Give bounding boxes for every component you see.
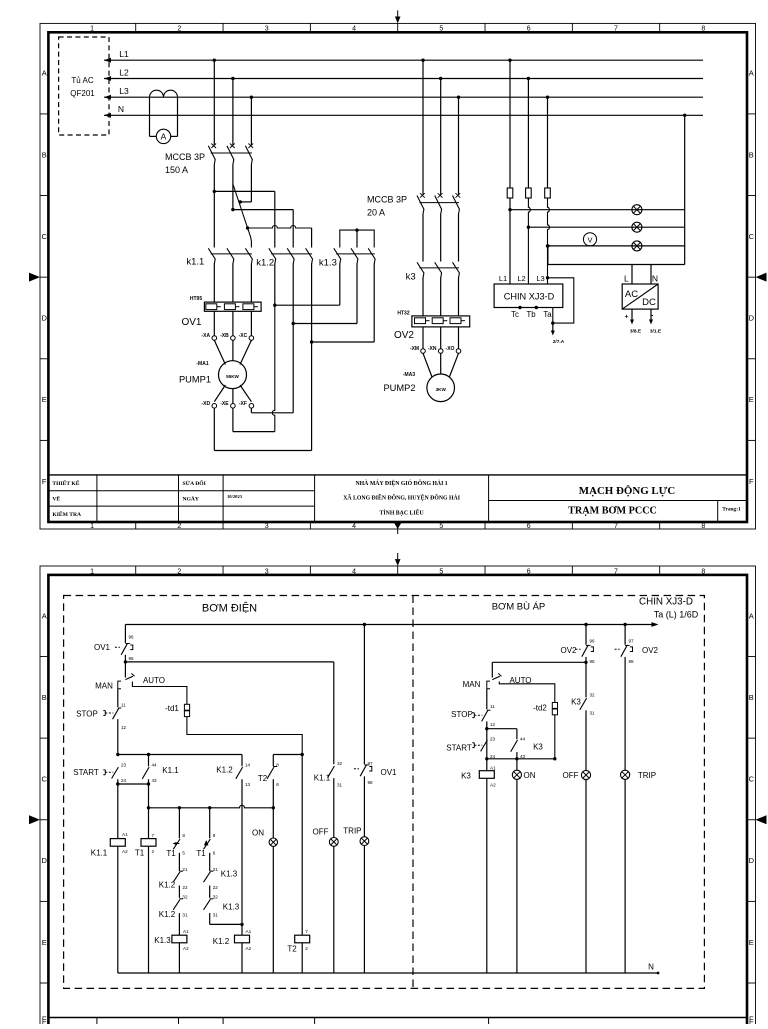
svg-text:k1.2: k1.2	[256, 258, 274, 269]
svg-text:-MA3: -MA3	[403, 372, 415, 378]
svg-text:CHIN XJ3-D: CHIN XJ3-D	[504, 292, 555, 302]
svg-text:F: F	[749, 477, 754, 486]
svg-text:VẼ: VẼ	[52, 495, 60, 503]
svg-text:L3: L3	[119, 86, 129, 96]
svg-text:8: 8	[701, 568, 705, 575]
svg-text:95: 95	[590, 659, 596, 664]
svg-text:43: 43	[152, 778, 158, 783]
svg-text:7: 7	[614, 568, 618, 575]
svg-text:OFF: OFF	[563, 771, 579, 780]
svg-text:OV2: OV2	[394, 330, 414, 341]
svg-text:START: START	[446, 744, 472, 753]
svg-text:-XF: -XF	[239, 401, 247, 407]
svg-text:QF201: QF201	[70, 89, 95, 98]
svg-text:K1.2: K1.2	[213, 937, 230, 946]
svg-text:HT95: HT95	[190, 296, 202, 302]
svg-text:A: A	[42, 611, 47, 620]
svg-text:95: 95	[129, 656, 135, 661]
svg-text:ON: ON	[524, 771, 536, 780]
svg-text:THIẾT KẾ: THIẾT KẾ	[52, 479, 79, 487]
svg-text:150 A: 150 A	[165, 165, 188, 175]
svg-text:31: 31	[337, 783, 343, 788]
svg-text:20 A: 20 A	[367, 208, 385, 218]
svg-text:F: F	[749, 1015, 754, 1024]
svg-text:OFF: OFF	[313, 828, 329, 837]
svg-text:AUTO: AUTO	[143, 676, 165, 685]
svg-text:TRẠM BƠM PCCC: TRẠM BƠM PCCC	[568, 505, 657, 516]
svg-text:32: 32	[590, 693, 596, 698]
svg-text:8: 8	[701, 26, 705, 33]
svg-text:Ta: Ta	[543, 310, 552, 319]
svg-text:96: 96	[129, 635, 135, 640]
svg-text:21: 21	[182, 867, 188, 872]
svg-text:START: START	[73, 768, 99, 777]
svg-text:E: E	[42, 938, 47, 947]
svg-text:A2: A2	[490, 782, 496, 787]
svg-text:L2: L2	[119, 67, 129, 77]
svg-text:k1.1: k1.1	[186, 257, 204, 268]
svg-text:TRIP: TRIP	[343, 827, 361, 836]
svg-text:A: A	[42, 69, 47, 78]
svg-text:6: 6	[527, 523, 531, 530]
svg-text:-XM: -XM	[410, 346, 419, 352]
svg-text:BƠM ĐIỆN: BƠM ĐIỆN	[202, 602, 257, 615]
svg-text:8: 8	[182, 833, 185, 838]
svg-text:A2: A2	[183, 946, 189, 951]
svg-text:7: 7	[152, 833, 155, 838]
svg-text:Tủ AC: Tủ AC	[71, 76, 93, 85]
svg-text:-XC: -XC	[239, 333, 248, 339]
svg-text:K1.3: K1.3	[223, 903, 240, 912]
svg-text:2: 2	[152, 849, 155, 854]
svg-text:A1: A1	[183, 929, 189, 934]
svg-text:K1.1: K1.1	[162, 766, 179, 775]
svg-text:-XN: -XN	[428, 346, 437, 352]
svg-text:E: E	[42, 395, 47, 404]
svg-text:STOP: STOP	[451, 710, 473, 719]
svg-text:B: B	[42, 693, 47, 702]
svg-text:5: 5	[439, 568, 443, 575]
svg-text:T1: T1	[135, 849, 145, 858]
svg-text:Tb: Tb	[526, 310, 536, 319]
svg-text:k1.3: k1.3	[319, 258, 337, 269]
svg-text:44: 44	[152, 762, 158, 767]
svg-text:7: 7	[305, 929, 308, 934]
svg-text:MAN: MAN	[463, 680, 481, 689]
svg-text:1: 1	[90, 26, 94, 33]
svg-text:XÃ LONG ĐIỀN ĐÔNG, HUYỆN ĐÔNG: XÃ LONG ĐIỀN ĐÔNG, HUYỆN ĐÔNG HẢI	[343, 494, 460, 502]
svg-text:32: 32	[213, 895, 219, 900]
svg-text:HT32: HT32	[397, 310, 409, 316]
svg-text:MCCB 3P: MCCB 3P	[367, 195, 407, 205]
svg-text:N: N	[648, 963, 654, 972]
svg-text:4: 4	[352, 568, 356, 575]
svg-text:1: 1	[90, 523, 94, 530]
svg-text:12: 12	[121, 725, 127, 730]
svg-text:+: +	[625, 314, 629, 321]
svg-text:Tc: Tc	[511, 310, 519, 319]
svg-text:K1.2: K1.2	[159, 881, 176, 890]
svg-text:C: C	[41, 775, 47, 784]
svg-text:23: 23	[490, 737, 496, 742]
svg-text:A: A	[749, 611, 754, 620]
svg-text:L2: L2	[517, 274, 525, 283]
svg-text:A1: A1	[122, 832, 128, 837]
svg-text:AC: AC	[625, 289, 638, 300]
svg-text:3KW: 3KW	[436, 387, 447, 392]
svg-text:A1: A1	[246, 929, 252, 934]
svg-text:K3: K3	[461, 772, 471, 781]
svg-text:N: N	[652, 274, 658, 284]
svg-text:T2: T2	[287, 945, 297, 954]
svg-text:K1.1: K1.1	[314, 774, 331, 783]
svg-text:13: 13	[245, 782, 251, 787]
svg-text:-MA1: -MA1	[196, 361, 208, 367]
svg-text:A2: A2	[122, 849, 128, 854]
svg-text:KIỂM TRA: KIỂM TRA	[52, 510, 81, 518]
svg-text:E: E	[749, 395, 754, 404]
svg-text:T1: T1	[196, 849, 206, 858]
svg-text:-XB: -XB	[220, 333, 229, 339]
svg-text:5: 5	[439, 523, 443, 530]
svg-text:OV1: OV1	[181, 317, 201, 328]
svg-text:K1.3: K1.3	[221, 870, 238, 879]
svg-text:K3: K3	[533, 743, 543, 752]
svg-text:OV2: OV2	[560, 646, 577, 655]
svg-text:K1.2: K1.2	[159, 910, 176, 919]
svg-text:6: 6	[276, 782, 279, 787]
svg-text:L3: L3	[536, 274, 544, 283]
svg-text:3: 3	[265, 523, 269, 530]
svg-text:K1.2: K1.2	[216, 766, 233, 775]
svg-text:6: 6	[213, 851, 216, 856]
svg-text:OV1: OV1	[94, 643, 111, 652]
svg-text:8: 8	[701, 523, 705, 530]
svg-text:L1: L1	[119, 49, 129, 59]
svg-text:Trang:1: Trang:1	[722, 507, 741, 513]
svg-text:C: C	[41, 232, 47, 241]
svg-text:31: 31	[182, 913, 188, 918]
svg-text:TỈNH BẠC LIÊU: TỈNH BẠC LIÊU	[380, 509, 425, 517]
svg-text:N: N	[118, 104, 124, 114]
svg-text:21: 21	[213, 867, 219, 872]
svg-text:98: 98	[368, 780, 374, 785]
svg-text:C: C	[749, 775, 755, 784]
svg-text:24: 24	[121, 778, 127, 783]
svg-text:D: D	[41, 856, 47, 865]
svg-text:31: 31	[213, 913, 219, 918]
svg-text:2: 2	[305, 946, 308, 951]
svg-text:F: F	[42, 1015, 47, 1024]
svg-text:-td2: -td2	[533, 704, 547, 713]
svg-text:12: 12	[490, 722, 496, 727]
svg-text:L1: L1	[499, 274, 507, 283]
svg-text:10/2023: 10/2023	[227, 494, 243, 499]
svg-text:3: 3	[265, 568, 269, 575]
svg-text:22: 22	[213, 885, 219, 890]
svg-text:98: 98	[629, 659, 635, 664]
svg-text:7: 7	[614, 26, 618, 33]
svg-text:TRIP: TRIP	[638, 771, 656, 780]
svg-text:-XD: -XD	[201, 401, 210, 407]
svg-text:B: B	[749, 150, 754, 159]
svg-text:T2: T2	[258, 774, 268, 783]
svg-text:44: 44	[520, 737, 526, 742]
svg-text:-XO: -XO	[446, 346, 455, 352]
svg-text:D: D	[749, 314, 755, 323]
svg-text:B: B	[749, 693, 754, 702]
svg-text:32: 32	[182, 895, 188, 900]
svg-text:-td1: -td1	[165, 704, 179, 713]
svg-text:A1: A1	[490, 766, 496, 771]
svg-text:NHÀ MÁY ĐIỆN GIÓ ĐÔNG HẢI 1: NHÀ MÁY ĐIỆN GIÓ ĐÔNG HẢI 1	[355, 479, 447, 487]
svg-text:6: 6	[527, 26, 531, 33]
svg-text:-XE: -XE	[220, 401, 229, 407]
svg-text:31: 31	[590, 711, 596, 716]
svg-text:2: 2	[177, 26, 181, 33]
svg-text:BƠM BÙ ÁP: BƠM BÙ ÁP	[492, 602, 546, 613]
svg-text:K1.3: K1.3	[154, 936, 171, 945]
svg-text:2: 2	[177, 568, 181, 575]
svg-text:STOP: STOP	[76, 710, 98, 719]
svg-text:K1.1: K1.1	[91, 849, 108, 858]
svg-text:96: 96	[590, 639, 596, 644]
svg-text:2: 2	[177, 523, 181, 530]
svg-text:23: 23	[121, 762, 127, 767]
svg-text:11: 11	[121, 702, 126, 707]
svg-text:Ta (L) 1/6D: Ta (L) 1/6D	[654, 610, 699, 620]
svg-text:97: 97	[368, 761, 374, 766]
svg-text:MẠCH ĐỘNG LỰC: MẠCH ĐỘNG LỰC	[579, 484, 676, 497]
svg-text:2/7.A: 2/7.A	[553, 339, 565, 345]
svg-text:k3: k3	[406, 272, 416, 283]
svg-text:7: 7	[614, 523, 618, 530]
svg-text:3: 3	[265, 26, 269, 33]
svg-text:-XA: -XA	[201, 333, 210, 339]
svg-text:MAN: MAN	[95, 682, 113, 691]
svg-text:5: 5	[439, 26, 443, 33]
svg-text:K3: K3	[571, 698, 581, 707]
svg-text:D: D	[41, 314, 47, 323]
svg-text:SỬA ĐỔI: SỬA ĐỔI	[183, 479, 206, 487]
svg-text:OV1: OV1	[380, 768, 397, 777]
svg-text:14: 14	[245, 762, 251, 767]
svg-text:3/1.E: 3/1.E	[650, 329, 662, 335]
svg-text:V: V	[587, 235, 592, 244]
svg-text:B: B	[42, 150, 47, 159]
svg-text:A2: A2	[246, 946, 252, 951]
svg-text:MCCB 3P: MCCB 3P	[165, 152, 205, 162]
svg-text:5: 5	[182, 851, 185, 856]
svg-text:F: F	[42, 477, 47, 486]
svg-text:97: 97	[629, 639, 635, 644]
svg-text:OV2: OV2	[642, 646, 659, 655]
svg-text:11: 11	[490, 704, 495, 709]
svg-text:ON: ON	[252, 829, 264, 838]
svg-text:1: 1	[90, 568, 94, 575]
svg-text:T1: T1	[166, 849, 176, 858]
svg-text:C: C	[749, 232, 755, 241]
svg-text:3/8.E: 3/8.E	[630, 329, 642, 335]
svg-text:D: D	[749, 856, 755, 865]
svg-text:8: 8	[213, 833, 216, 838]
svg-text:22: 22	[182, 885, 188, 890]
svg-text:A: A	[749, 69, 754, 78]
svg-text:4: 4	[352, 523, 356, 530]
svg-text:55KW: 55KW	[226, 374, 239, 379]
svg-text:PUMP1: PUMP1	[179, 374, 211, 384]
svg-text:PUMP2: PUMP2	[383, 383, 415, 393]
svg-text:L: L	[624, 274, 629, 284]
svg-text:CHIN XJ3-D: CHIN XJ3-D	[639, 597, 693, 608]
svg-text:A: A	[161, 132, 167, 142]
svg-text:4: 4	[352, 26, 356, 33]
svg-text:NGÀY: NGÀY	[183, 495, 199, 503]
svg-text:6: 6	[527, 568, 531, 575]
svg-text:E: E	[749, 938, 754, 947]
svg-text:DC: DC	[642, 297, 656, 308]
svg-text:32: 32	[337, 761, 343, 766]
